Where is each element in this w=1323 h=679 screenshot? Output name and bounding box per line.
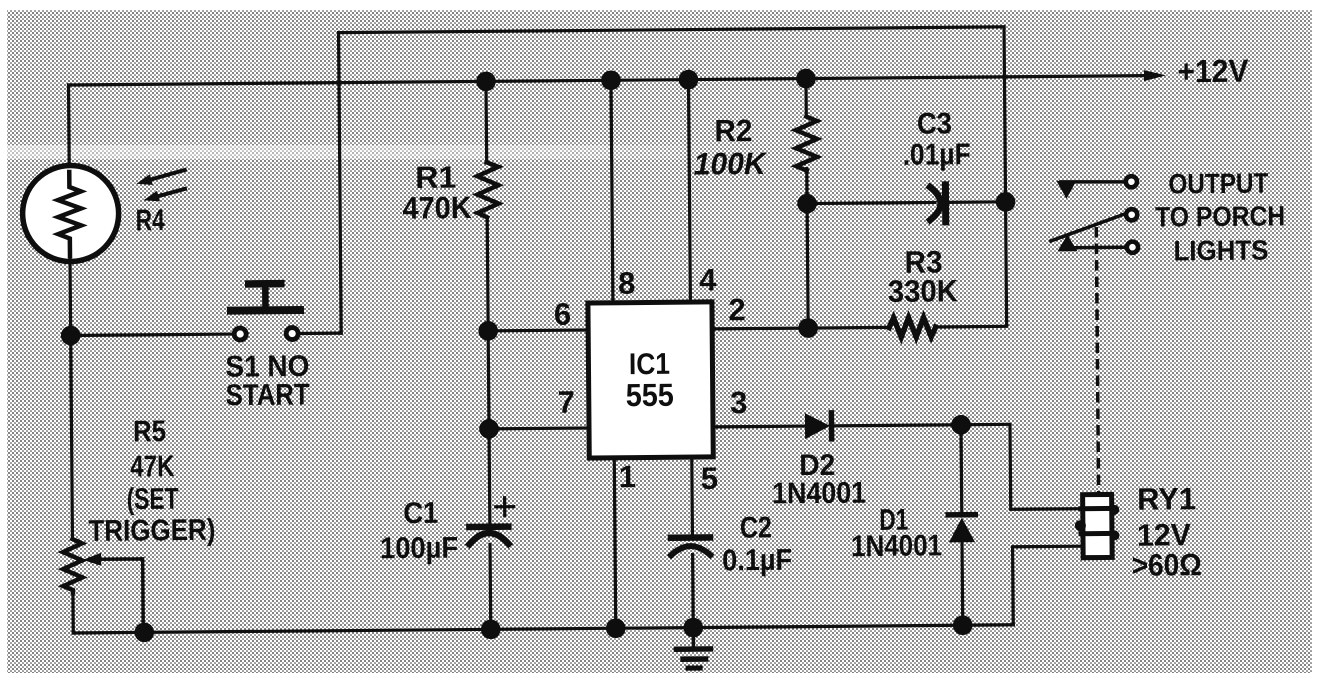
node C3 right junction bbox=[996, 192, 1016, 212]
wire pin7 bbox=[489, 426, 589, 430]
wire node A to S1 bbox=[71, 334, 233, 335]
wire C2 to rail bbox=[691, 555, 695, 628]
wire C3 right bbox=[949, 200, 1005, 204]
resistor R3 bbox=[889, 317, 936, 337]
svg-text:R4: R4 bbox=[136, 204, 166, 237]
node pin4 rail junction bbox=[679, 70, 699, 90]
svg-text:1N4001: 1N4001 bbox=[851, 529, 942, 563]
svg-text:>60Ω: >60Ω bbox=[1132, 547, 1202, 583]
svg-text:C3: C3 bbox=[917, 107, 952, 140]
contact terminal 1 bbox=[1126, 176, 1137, 187]
wire relay bottom feed bbox=[1013, 546, 1084, 625]
R4 light arrow 2 bbox=[156, 189, 185, 197]
svg-text:5: 5 bbox=[701, 461, 719, 496]
capacitor C3 bbox=[930, 187, 941, 220]
switch S1 right contact bbox=[286, 328, 298, 340]
node R5 wiper junction bbox=[134, 622, 154, 642]
svg-text:1: 1 bbox=[619, 459, 637, 494]
wire left column below photocell bbox=[70, 259, 72, 539]
+12V arrowhead bbox=[1144, 70, 1166, 81]
node A junction bbox=[61, 326, 81, 346]
wire pin2 bbox=[712, 327, 890, 329]
wire pin8 bbox=[611, 80, 613, 302]
wire pin5 bbox=[690, 457, 694, 534]
resistor R2 bbox=[804, 79, 808, 115]
wire relay top feed bbox=[1010, 424, 1083, 510]
node R2 rail junction bbox=[796, 69, 816, 89]
svg-text:TRIGGER): TRIGGER) bbox=[88, 514, 215, 548]
wire pin3 bbox=[713, 424, 806, 428]
C1 plus sign bbox=[496, 505, 514, 508]
contact armature bbox=[1051, 214, 1124, 241]
op IC1 555 box bbox=[588, 302, 713, 458]
node R1 rail junction bbox=[476, 71, 496, 91]
svg-text:100K: 100K bbox=[694, 146, 769, 182]
contact terminal 2 bbox=[1126, 209, 1137, 220]
wire C1 to bottom rail bbox=[488, 544, 492, 629]
wire S1 to top loop bbox=[299, 332, 341, 336]
diode D1 bbox=[959, 425, 963, 512]
ground bbox=[692, 628, 696, 649]
wire top loop horizontal bbox=[339, 27, 1004, 33]
contact bottom line bbox=[1071, 246, 1123, 250]
svg-text:C2: C2 bbox=[740, 511, 772, 544]
wire pin3 to corner bbox=[833, 424, 1010, 426]
node R2 C3 junction bbox=[797, 194, 817, 214]
node D1 top junction bbox=[951, 415, 971, 435]
wire left column bottom bbox=[71, 591, 75, 633]
switch S1 cap bbox=[249, 280, 281, 288]
svg-text:RY1: RY1 bbox=[1137, 481, 1196, 517]
contact fixed top triangle bbox=[1056, 181, 1076, 199]
svg-text:R2: R2 bbox=[714, 113, 752, 148]
svg-text:4: 4 bbox=[699, 262, 717, 297]
node R2 pin2 junction bbox=[798, 318, 818, 338]
R4 light arrow 1 bbox=[150, 170, 185, 180]
photocell R4 bbox=[22, 165, 119, 262]
contact fixed bottom triangle bbox=[1057, 235, 1077, 252]
capacitor C2 bbox=[671, 534, 710, 541]
svg-text:OUTPUT: OUTPUT bbox=[1168, 168, 1268, 200]
svg-text:8: 8 bbox=[618, 266, 636, 301]
wire +12V rail bbox=[69, 76, 1148, 85]
relay dashed link bbox=[1096, 227, 1098, 494]
svg-text:LIGHTS: LIGHTS bbox=[1173, 235, 1268, 267]
node pin6 junction bbox=[478, 321, 498, 341]
svg-text:START: START bbox=[226, 378, 310, 412]
switch S1 left contact bbox=[234, 328, 246, 340]
contact terminal 3 bbox=[1127, 242, 1138, 253]
svg-text:100µF: 100µF bbox=[380, 532, 458, 566]
svg-text:.01µF: .01µF bbox=[903, 138, 971, 172]
node pin8 rail junction bbox=[601, 70, 621, 90]
wire top loop left vertical bbox=[339, 33, 342, 333]
wire pin4 bbox=[688, 80, 690, 302]
node ground junction bbox=[683, 618, 703, 638]
svg-text:0.1µF: 0.1µF bbox=[722, 544, 792, 578]
node pin1 bottom junction bbox=[606, 618, 626, 638]
svg-text:R5: R5 bbox=[133, 415, 166, 448]
svg-text:2: 2 bbox=[728, 292, 746, 327]
svg-text:7: 7 bbox=[558, 385, 576, 420]
svg-text:TO PORCH: TO PORCH bbox=[1155, 200, 1285, 232]
contact top line bbox=[1061, 181, 1123, 182]
node pin7 junction bbox=[479, 419, 499, 439]
svg-text:555: 555 bbox=[626, 377, 674, 413]
svg-text:6: 6 bbox=[554, 297, 572, 332]
wire bottom rail bbox=[73, 625, 1013, 633]
wire top loop right vertical bbox=[1004, 27, 1007, 326]
svg-text:470K: 470K bbox=[402, 190, 472, 226]
wire left column top bbox=[67, 85, 71, 168]
svg-text:(SET: (SET bbox=[126, 483, 178, 516]
svg-text:+12V: +12V bbox=[1177, 53, 1249, 90]
wire pin1 bbox=[614, 458, 615, 628]
capacitor C1 bbox=[469, 523, 508, 530]
svg-text:3: 3 bbox=[730, 385, 748, 420]
svg-text:330K: 330K bbox=[888, 273, 959, 309]
node C1 bottom junction bbox=[481, 619, 501, 639]
wire C3 left bbox=[807, 202, 935, 203]
svg-text:1N4001: 1N4001 bbox=[772, 477, 866, 511]
R5 wiper arrow bbox=[83, 553, 102, 566]
switch S1 actuator bar bbox=[231, 306, 300, 315]
svg-text:C1: C1 bbox=[403, 497, 438, 530]
switch S1 stem bbox=[262, 287, 269, 310]
resistor R1 bbox=[484, 81, 488, 162]
potentiometer R5 bbox=[63, 539, 82, 592]
diode D2 bbox=[805, 413, 830, 439]
wire pin6 bbox=[488, 328, 588, 332]
relay RY1 coil bbox=[1083, 494, 1113, 557]
svg-text:47K: 47K bbox=[130, 450, 175, 483]
node D1 bottom junction bbox=[953, 615, 973, 635]
